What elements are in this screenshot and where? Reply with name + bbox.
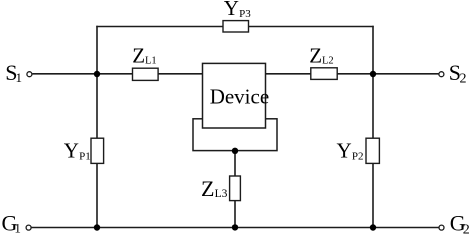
terminal G2 [439, 225, 444, 230]
svg-text:Device: Device [210, 85, 269, 109]
wire top rail [96, 26, 373, 28]
device U1 box [203, 63, 266, 128]
wire S1 input [32, 73, 203, 75]
wire bottom ground rail [32, 227, 439, 229]
terminal S1 [27, 72, 32, 77]
resistor YP3 [223, 21, 249, 32]
package bracket under device [193, 119, 277, 151]
wire S2 output [265, 73, 439, 75]
junction node right ground [370, 224, 376, 230]
junction node bracket bottom [232, 148, 238, 154]
resistor ZL3 [230, 176, 241, 201]
junction node right output [370, 71, 376, 77]
resistor ZL1 [133, 68, 159, 80]
junction node ZL3 ground [232, 224, 238, 230]
junction node left input [94, 71, 100, 77]
terminal S2 [439, 72, 444, 77]
junction node left ground [94, 224, 100, 230]
resistor YP2 [366, 138, 379, 163]
wire ZL3 branch [234, 151, 236, 228]
wire right vertical branch [372, 26, 374, 228]
resistor YP1 [91, 138, 104, 163]
resistor ZL2 [311, 68, 337, 80]
wire left vertical branch [96, 26, 98, 228]
terminal G1 [26, 225, 31, 230]
